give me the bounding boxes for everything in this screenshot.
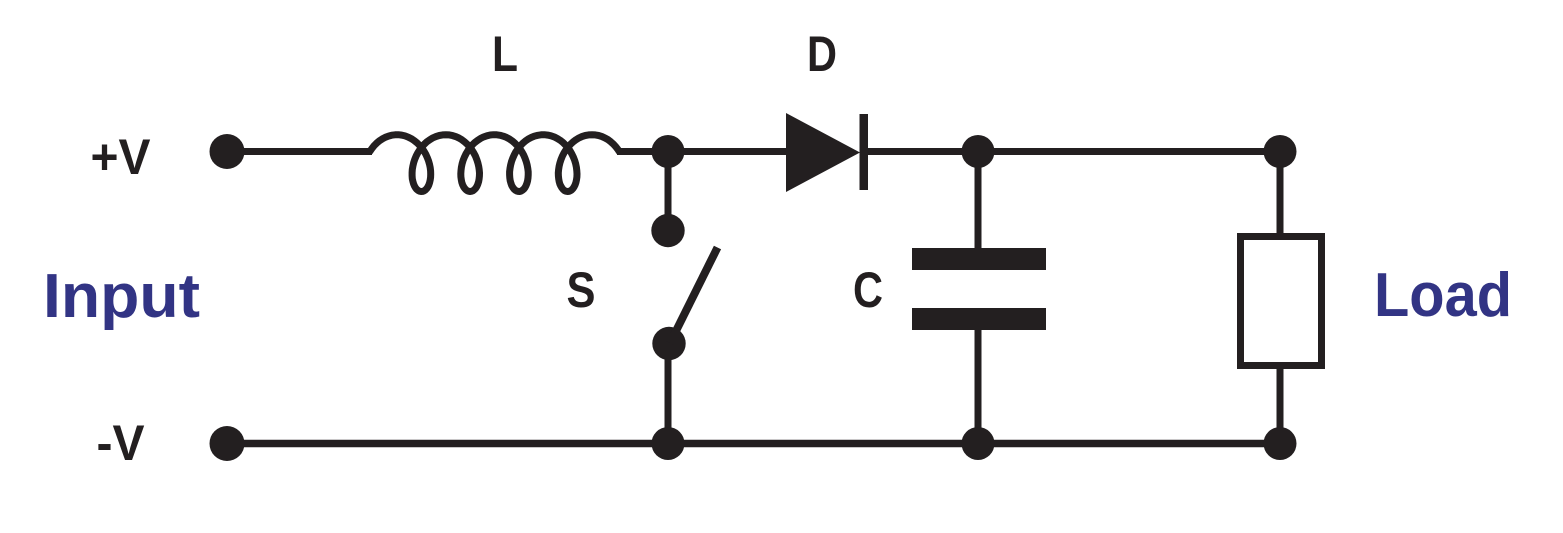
- resistor Load box: [1241, 237, 1322, 366]
- wire switch to bottom rail: [665, 343, 672, 444]
- wire top rail right: [864, 148, 1280, 155]
- node after diode: [962, 135, 995, 168]
- svg-text:+V: +V: [91, 129, 152, 185]
- wire load top lead: [1277, 152, 1284, 239]
- capacitor C: [912, 248, 1046, 330]
- svg-text:-V: -V: [97, 415, 146, 471]
- svg-text:C: C: [853, 262, 883, 318]
- wire capacitor bottom lead: [975, 326, 982, 444]
- svg-text:S: S: [567, 262, 596, 318]
- switch S: [651, 214, 717, 360]
- node top right: [1264, 135, 1297, 168]
- node bottom capacitor junction: [962, 427, 995, 460]
- wire capacitor top lead: [975, 152, 982, 253]
- wire bottom rail: [227, 440, 1280, 448]
- svg-text:Load: Load: [1374, 261, 1512, 330]
- node A switch top junction: [652, 135, 685, 168]
- wire load bottom lead: [1277, 366, 1284, 444]
- svg-text:L: L: [492, 26, 518, 82]
- wire top rail middle: [617, 148, 792, 155]
- svg-text:Input: Input: [43, 262, 200, 331]
- node +V terminal: [210, 134, 245, 169]
- diode D: [786, 113, 868, 192]
- node -V terminal: [210, 426, 245, 461]
- wire switch stem: [665, 152, 672, 232]
- svg-text:D: D: [807, 26, 837, 82]
- node bottom right: [1264, 427, 1297, 460]
- wire top rail left: [227, 148, 372, 155]
- inductor L: [370, 135, 619, 192]
- node bottom switch junction: [652, 427, 685, 460]
